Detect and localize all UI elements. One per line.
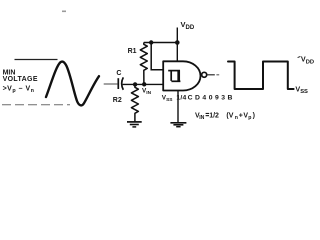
svg-text:1/2: 1/2 <box>209 112 219 119</box>
junction dot VDD <box>175 40 180 45</box>
svg-text:CD4093B: CD4093B <box>188 94 235 101</box>
svg-text:R2: R2 <box>113 97 122 104</box>
junction dot R2 node <box>133 82 137 86</box>
wire sine to capacitor <box>104 83 118 85</box>
ground (R2) <box>127 122 142 127</box>
VSS pin wire <box>177 91 179 123</box>
junction dot R1 node <box>142 82 146 86</box>
svg-text:C: C <box>116 70 121 77</box>
formula VIN = 1/2 (Vn + Vp) <box>195 112 255 121</box>
svg-text:p: p <box>248 115 251 121</box>
stray scan mark <box>62 11 66 13</box>
square wave output waveform <box>228 62 294 90</box>
svg-text:VOLTAGE: VOLTAGE <box>3 76 38 83</box>
wire capacitor to gate input (VIN node) <box>123 83 164 85</box>
svg-text:(V: (V <box>226 112 233 119</box>
Schmitt hysteresis symbol <box>168 70 180 81</box>
peak level line <box>15 59 58 61</box>
trough level dashed line <box>2 104 70 106</box>
capacitor C <box>118 77 123 89</box>
resistor R1 <box>140 43 147 85</box>
output bubble <box>202 72 207 77</box>
svg-text:1/4: 1/4 <box>176 94 186 101</box>
resistor R2 <box>131 84 138 121</box>
svg-text:R1: R1 <box>128 48 137 55</box>
VDD supply line into gate <box>176 28 178 62</box>
svg-text:+: + <box>239 112 243 119</box>
svg-text:IN: IN <box>199 115 204 121</box>
junction dot upper-input branch <box>149 40 153 44</box>
op-amp/gate U1 NAND body 1/4 CD4093B <box>163 61 200 90</box>
VDD rail wire <box>144 42 178 44</box>
svg-text:): ) <box>253 112 255 119</box>
wire rail to upper gate input <box>151 43 163 70</box>
sine wave input waveform <box>46 62 99 106</box>
svg-text:n: n <box>235 115 238 121</box>
label VDD (square wave) <box>298 56 301 57</box>
ground (VSS) <box>170 123 186 127</box>
label MIN VOLTAGE >Vp-Vn <box>3 70 38 95</box>
output wire <box>207 74 215 76</box>
